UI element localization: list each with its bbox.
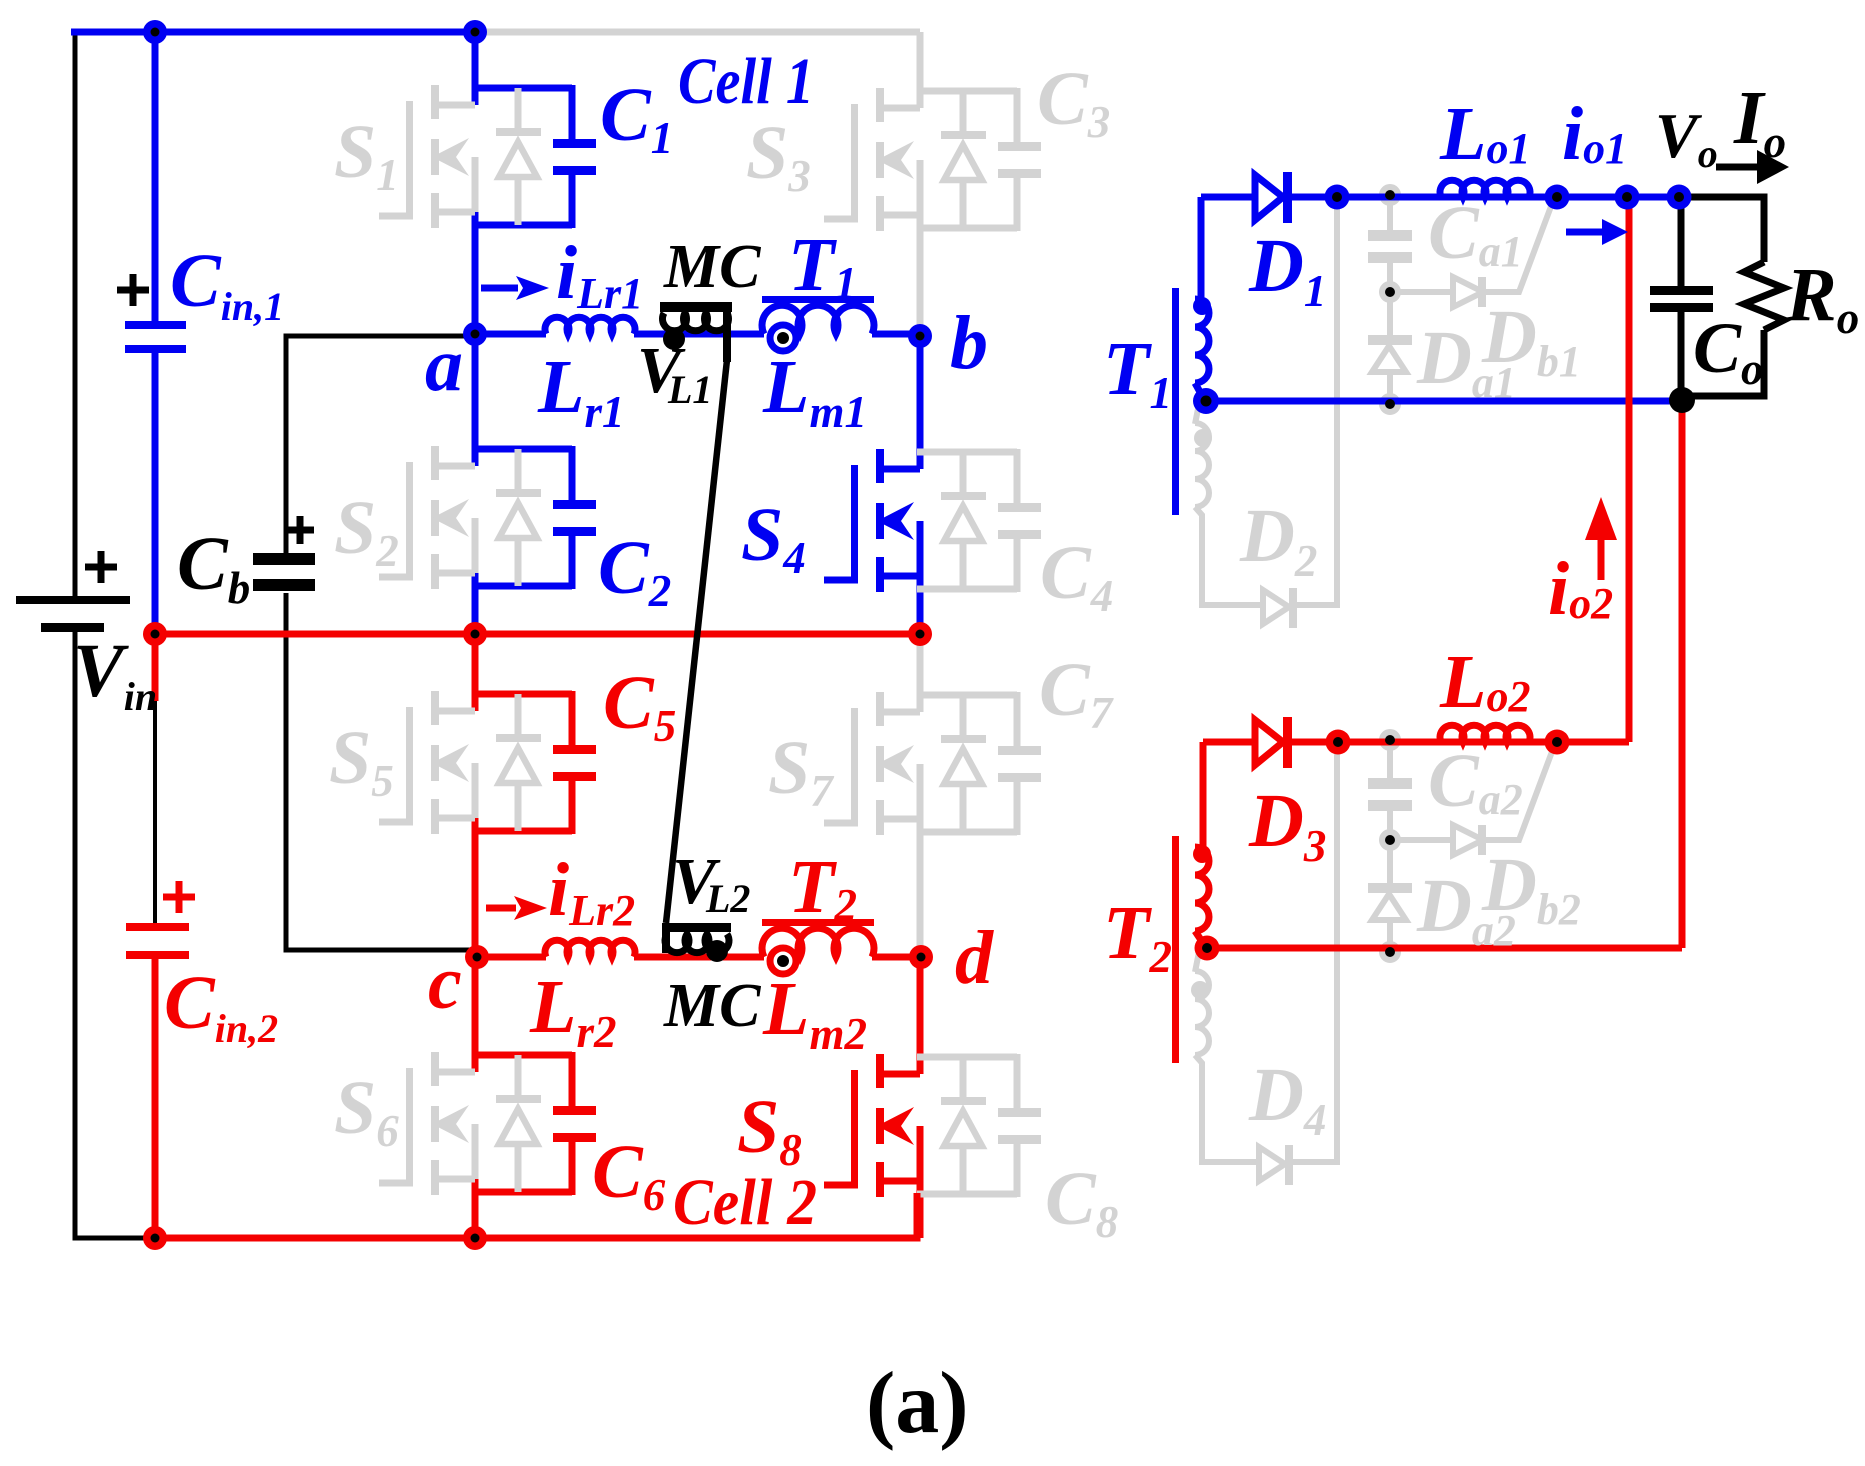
svg-text:a: a	[425, 323, 463, 407]
svg-text:L1: L1	[667, 367, 712, 412]
svg-text:L2: L2	[705, 876, 750, 921]
svg-text:(a): (a)	[866, 1355, 969, 1452]
svg-text:b: b	[950, 301, 988, 385]
svg-text:Cell 2: Cell 2	[673, 1166, 817, 1239]
svg-text:c: c	[428, 941, 462, 1025]
svg-text:Cell 1: Cell 1	[678, 45, 814, 118]
svg-text:MC: MC	[663, 233, 761, 301]
svg-text:d: d	[955, 916, 994, 1000]
svg-text:MC: MC	[663, 972, 761, 1040]
